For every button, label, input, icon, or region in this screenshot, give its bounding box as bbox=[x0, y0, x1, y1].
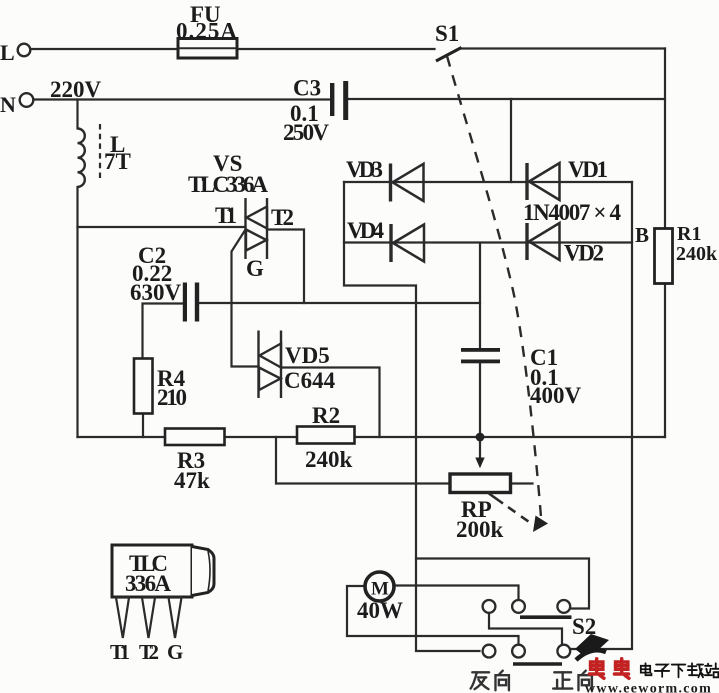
svg-text:www.eeworm.com: www.eeworm.com bbox=[585, 682, 712, 693]
svg-text:220V: 220V bbox=[50, 77, 102, 102]
svg-text:C3: C3 bbox=[293, 76, 321, 101]
svg-text:T1: T1 bbox=[215, 203, 237, 228]
svg-text:240k: 240k bbox=[676, 243, 718, 265]
svg-text:210: 210 bbox=[157, 385, 187, 410]
svg-text:630V: 630V bbox=[130, 280, 182, 305]
svg-text:M: M bbox=[371, 579, 389, 600]
svg-text:250V: 250V bbox=[283, 120, 329, 145]
svg-text:S1: S1 bbox=[435, 21, 459, 46]
svg-text:R2: R2 bbox=[312, 403, 340, 428]
svg-text:47k: 47k bbox=[174, 468, 210, 493]
svg-text:VD1: VD1 bbox=[568, 157, 608, 182]
svg-text:VD3: VD3 bbox=[346, 157, 383, 182]
svg-text:G: G bbox=[246, 256, 264, 281]
svg-text:VD4: VD4 bbox=[347, 218, 385, 243]
svg-text:VD2: VD2 bbox=[564, 241, 604, 266]
svg-text:0.25A: 0.25A bbox=[176, 19, 237, 44]
svg-text:240k: 240k bbox=[305, 447, 353, 472]
svg-text:T1: T1 bbox=[110, 640, 130, 664]
svg-text:C644: C644 bbox=[284, 368, 336, 393]
svg-text:L: L bbox=[0, 40, 15, 65]
svg-text:400V: 400V bbox=[530, 383, 582, 408]
svg-text:T2: T2 bbox=[139, 640, 159, 664]
svg-text:40W: 40W bbox=[357, 598, 403, 623]
svg-text:R1: R1 bbox=[677, 223, 701, 245]
svg-text:G: G bbox=[167, 640, 183, 664]
svg-text:T2: T2 bbox=[271, 205, 294, 230]
svg-text:TLC336A: TLC336A bbox=[188, 172, 268, 197]
svg-text:B: B bbox=[635, 223, 649, 247]
svg-text:1N4007 × 4: 1N4007 × 4 bbox=[523, 200, 622, 225]
svg-text:7T: 7T bbox=[104, 149, 131, 174]
svg-text:200k: 200k bbox=[456, 517, 504, 542]
svg-text:N: N bbox=[0, 92, 16, 117]
svg-text:336A: 336A bbox=[125, 571, 171, 596]
svg-text:VD5: VD5 bbox=[285, 343, 330, 368]
